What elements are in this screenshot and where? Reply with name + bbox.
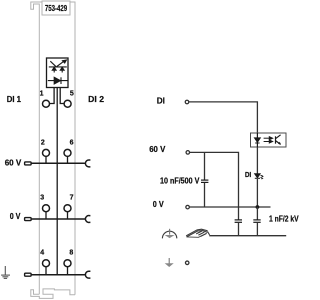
0V terminal (schematic): [186, 205, 190, 209]
chassis rail wire: [209, 235, 286, 237]
DI wire: [189, 102, 257, 133]
terminal 2: [43, 149, 50, 156]
dual diode symbol with emission arrow inside U1: [49, 60, 67, 73]
capacitor C3 1nF/2kV right: [256, 207, 258, 220]
pin 1 lead: [50, 88, 54, 104]
svg-text:6: 6: [70, 140, 74, 147]
pin 5 lead: [60, 88, 64, 104]
DI terminal: [185, 100, 189, 104]
60V terminal (schematic): [186, 151, 190, 155]
svg-text:60 V: 60 V: [149, 144, 165, 154]
svg-text:8: 8: [69, 249, 73, 256]
status LED DI: [255, 174, 264, 180]
svg-text:1 nF/2 kV: 1 nF/2 kV: [269, 215, 299, 224]
earth row wire: [31, 274, 85, 276]
svg-text:DI: DI: [157, 96, 165, 106]
0V connector plug: [25, 218, 32, 221]
svg-text:4: 4: [40, 249, 44, 256]
60V row wire: [31, 162, 85, 164]
svg-text:0 V: 0 V: [10, 211, 21, 221]
continuation arrow (to next module): [165, 258, 174, 267]
field supply symbol (arc with arrow): [162, 229, 176, 239]
terminal 8: [64, 260, 71, 267]
power jumper contact row 4/8: [85, 271, 90, 278]
svg-text:2: 2: [41, 140, 45, 147]
power jumper contact row 3/7: [85, 216, 90, 223]
svg-text:DI 2: DI 2: [88, 94, 104, 104]
terminal 5: [64, 100, 71, 107]
diode D1 inside U1: [48, 77, 68, 84]
svg-text:5: 5: [70, 91, 74, 98]
part number label box 753-429: [42, 1, 70, 15]
terminal 1: [43, 100, 50, 107]
earth connector plug: [25, 273, 32, 276]
svg-text:0 V: 0 V: [153, 199, 164, 209]
earth ground symbol: [1, 266, 10, 278]
power jumper contact row 2/6: [85, 160, 90, 167]
capacitor C2 1nF/2kV left: [235, 219, 242, 221]
0V row wire: [31, 218, 85, 220]
node circle (next module): [185, 261, 189, 265]
wire LED to 0V junction: [256, 179, 258, 207]
input circuit box U1: [47, 58, 69, 88]
terminal 6: [64, 149, 71, 156]
svg-text:DI: DI: [245, 170, 251, 179]
svg-text:7: 7: [70, 195, 74, 202]
svg-text:3: 3: [40, 195, 44, 202]
svg-text:DI 1: DI 1: [7, 94, 22, 104]
module outline: [31, 2, 75, 298]
phototransistor inside optocoupler: [276, 135, 281, 145]
LED inside optocoupler: [255, 133, 261, 147]
wire optocoupler to LED DI: [256, 147, 258, 174]
terminal 7: [64, 205, 71, 212]
svg-text:1: 1: [40, 91, 44, 98]
optocoupler box U2: [251, 133, 287, 147]
DIN rail contact symbol: [186, 229, 210, 237]
junction node: [256, 205, 260, 209]
internal bus wire: [56, 88, 58, 275]
svg-text:60 V: 60 V: [5, 157, 22, 167]
svg-text:753-429: 753-429: [45, 3, 68, 13]
0V wire (schematic): [190, 206, 271, 208]
capacitor C1 10nF/500V branch: [204, 152, 206, 179]
terminal 4: [43, 260, 50, 267]
light arrows inside optocoupler: [264, 137, 273, 143]
60V connector plug: [25, 162, 32, 165]
terminal 3: [43, 205, 50, 212]
svg-text:10 nF/500 V: 10 nF/500 V: [160, 177, 200, 186]
60V wire (schematic): [190, 152, 239, 219]
